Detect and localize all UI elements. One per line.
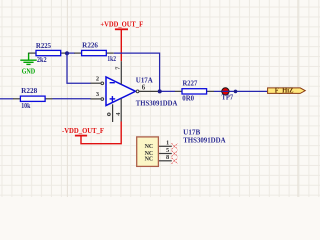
- svg-text:8: 8: [166, 154, 169, 161]
- pin 5 U17B: [159, 147, 172, 154]
- wire inverting input: [67, 53, 91, 83]
- wire output to port: [214, 90, 267, 92]
- op-amp U17B (NC part): [137, 129, 227, 167]
- svg-text:R225: R225: [36, 42, 52, 50]
- svg-text:1: 1: [166, 140, 169, 147]
- svg-text:5: 5: [166, 147, 169, 154]
- svg-text:3: 3: [96, 91, 99, 98]
- no-ERC marker pin 8: [172, 158, 178, 164]
- svg-text:GND: GND: [22, 68, 36, 76]
- pin 3: [90, 91, 103, 100]
- resistor R227: [175, 79, 214, 102]
- op-amp U17A: [106, 77, 178, 108]
- svg-text:NC: NC: [145, 156, 154, 163]
- svg-text:R227: R227: [183, 79, 198, 87]
- svg-text:2k2: 2k2: [37, 57, 47, 64]
- node output junction: [160, 90, 175, 92]
- svg-text:0R0: 0R0: [182, 96, 194, 103]
- pin 2: [90, 75, 103, 84]
- resistor R228: [0, 87, 53, 110]
- svg-text:2: 2: [96, 75, 99, 82]
- node junction A: [65, 51, 69, 55]
- pin 4: [115, 99, 122, 122]
- wire junction to R226: [66, 52, 75, 54]
- no-ERC marker pin 5: [172, 151, 178, 157]
- power -VDD_OUT_F: [62, 122, 121, 144]
- node junction after TP7: [234, 90, 238, 94]
- resistor R225: [29, 42, 68, 64]
- resistor R226: [74, 42, 116, 64]
- no-ERC marker pin 1: [172, 143, 178, 149]
- power +VDD_OUT_F: [100, 20, 143, 62]
- port F_HiZ: [268, 88, 306, 95]
- pin 7: [114, 61, 121, 84]
- svg-text:THS3091DDA: THS3091DDA: [136, 100, 178, 108]
- pin 6: [136, 85, 158, 93]
- svg-text:-VDD_OUT_F: -VDD_OUT_F: [62, 126, 104, 135]
- pin 1 (unconnected bottom pin): [108, 104, 113, 122]
- pin 1 U17B: [159, 140, 172, 147]
- wire non-inverting input: [53, 98, 91, 100]
- ground GND: [20, 53, 36, 76]
- major grid line x=67: [66, 0, 68, 197]
- svg-text:R226: R226: [82, 42, 98, 50]
- wire feedback: [114, 53, 160, 91]
- svg-text:+VDD_OUT_F: +VDD_OUT_F: [100, 20, 143, 29]
- test point TP7: [222, 88, 234, 102]
- svg-text:TP7: TP7: [222, 94, 234, 102]
- svg-text:1k2: 1k2: [107, 56, 116, 63]
- svg-text:THS3091DDA: THS3091DDA: [183, 136, 226, 144]
- svg-text:6: 6: [142, 85, 146, 92]
- svg-text:F_HiZ: F_HiZ: [275, 88, 294, 95]
- major grid line x=298: [297, 0, 299, 197]
- svg-text:10k: 10k: [21, 103, 30, 110]
- svg-text:U17A: U17A: [136, 77, 154, 85]
- svg-text:R228: R228: [21, 87, 38, 95]
- pin 8 U17B: [159, 154, 172, 161]
